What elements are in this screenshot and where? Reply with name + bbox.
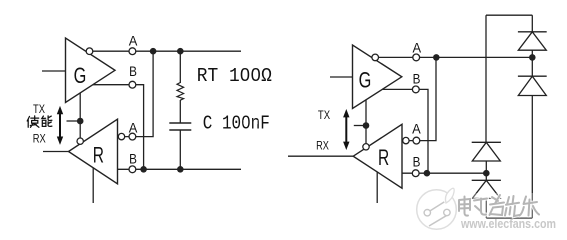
wire enable vertical right <box>365 100 367 144</box>
svg-text:R: R <box>93 143 104 168</box>
svg-text:R: R <box>378 145 389 170</box>
node A junction dot right <box>433 54 440 61</box>
svg-text:G: G <box>359 68 372 93</box>
wire G input stub <box>42 70 66 72</box>
wire D1-D2 lead <box>531 50 533 76</box>
terminal B circle of G2 <box>412 86 419 93</box>
bubble R1 input A <box>118 133 124 139</box>
resistor RT zigzag <box>177 83 184 101</box>
terminal A circle of R1 <box>129 133 136 140</box>
wire top rail <box>486 14 532 16</box>
wire R2 output stub <box>288 155 353 157</box>
TX/RX arrow left <box>57 106 63 145</box>
node B clamp junction dot <box>483 170 490 177</box>
wire left column <box>485 15 487 142</box>
svg-text:B: B <box>413 71 421 87</box>
bubble R2 input A <box>403 137 409 143</box>
capacitor C plate top <box>169 122 191 124</box>
svg-text:TX: TX <box>318 108 330 122</box>
terminal B circle of R1 <box>129 166 136 173</box>
terminal B circle of R2 <box>412 170 419 177</box>
diode D2 <box>518 76 547 95</box>
zero counter patches (hide Liberation Mono dotted zeros) <box>243 72 258 124</box>
svg-text:B: B <box>129 63 137 79</box>
svg-text:A: A <box>413 39 422 55</box>
wire enable jog <box>67 120 81 122</box>
terminal B circle of G1 <box>129 81 136 88</box>
diode D3 <box>472 142 501 161</box>
receiver R2 triangle <box>353 124 402 188</box>
watermark logo circle <box>417 188 457 229</box>
node B junction dot 2 (C leg) <box>177 166 184 173</box>
svg-text:C 100nF: C 100nF <box>203 113 270 135</box>
svg-text:RX: RX <box>316 138 329 152</box>
wire R1 bottom stub <box>92 168 94 203</box>
svg-text:B: B <box>413 154 421 170</box>
bubble R2 enable <box>363 144 369 150</box>
wire C to B bus <box>179 130 181 169</box>
bubble R1 enable <box>77 138 83 144</box>
wire B bus right <box>402 172 486 174</box>
svg-text:TX: TX <box>33 102 45 116</box>
receiver R1 triangle <box>69 119 118 184</box>
wire G1 B output <box>93 85 144 170</box>
node B junction dot right <box>424 170 431 177</box>
driver G1 triangle <box>66 38 116 103</box>
bubble on G2 output A <box>372 54 379 61</box>
svg-text:RT 100Ω: RT 100Ω <box>197 65 272 87</box>
diode D4 <box>472 180 501 198</box>
node A junction dot 1 <box>150 48 157 55</box>
TX/RX arrow right <box>343 109 349 150</box>
wire G2 input stub <box>330 76 353 78</box>
svg-text:G: G <box>74 63 87 88</box>
node B junction dot 1 <box>140 166 147 173</box>
wire R1.A to A bus <box>118 51 154 136</box>
node enable junction dot <box>77 118 84 125</box>
wire D4 bottom lead <box>485 198 487 218</box>
capacitor C plate bottom <box>169 129 191 131</box>
terminal A circle <box>129 48 136 55</box>
wire R1 output stub <box>43 151 69 153</box>
svg-text:RX: RX <box>33 132 46 146</box>
wire G2 B output <box>382 89 428 173</box>
wire right column down <box>531 96 533 219</box>
wire D1 top lead <box>531 15 533 32</box>
wire A bus <box>93 50 241 52</box>
label 使能 (hand drawn strokes) <box>27 116 52 127</box>
WATERMARK <box>417 188 556 231</box>
wire B bus <box>118 168 242 170</box>
svg-text:A: A <box>129 32 138 48</box>
terminal A circle of R2 <box>413 137 420 144</box>
svg-text:A: A <box>412 121 421 137</box>
wire R2 bottom stub <box>376 172 378 203</box>
wire enable vertical <box>79 93 81 138</box>
watermark text 电子发烧友 (stylized, white body + gray edge) <box>459 195 539 216</box>
driver G2 triangle <box>353 45 402 109</box>
watermark backdrop haze <box>455 193 555 218</box>
node enable junction dot right <box>363 122 370 129</box>
wire D3-D4 lead <box>485 161 487 180</box>
node A junction dot 2 (RT leg) <box>177 48 184 55</box>
wire R2.A to A bus <box>402 57 436 140</box>
wire RT to C <box>179 100 181 123</box>
terminal A circle of G2 <box>413 54 420 61</box>
resistor RT leg top wire <box>179 51 181 83</box>
wire bottom rail <box>486 217 532 219</box>
svg-text:B: B <box>129 150 137 166</box>
bubble on G1 output A <box>86 48 93 55</box>
wire enable jog right <box>354 125 366 127</box>
svg-text:A: A <box>129 119 138 135</box>
node A clamp junction dot <box>529 54 536 61</box>
diode D1 <box>518 32 547 50</box>
wire A bus right <box>379 56 533 58</box>
svg-text:www.elecfans.com: www.elecfans.com <box>460 217 556 231</box>
